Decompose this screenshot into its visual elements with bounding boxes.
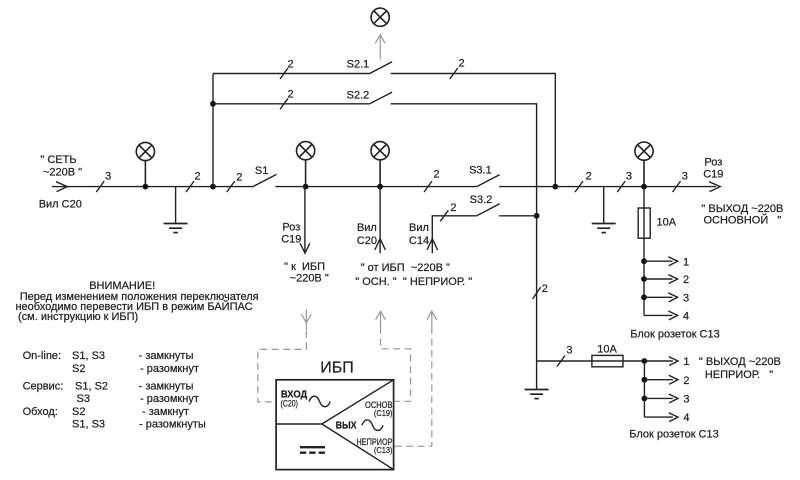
svg-text:2: 2	[458, 57, 464, 69]
svg-text:2: 2	[683, 274, 689, 286]
svg-text:4: 4	[683, 412, 689, 424]
lamp HL4	[635, 142, 653, 187]
svg-text:S1, S3: S1, S3	[72, 350, 105, 362]
svg-text:ОСНОВНОЙ ": ОСНОВНОЙ "	[703, 214, 781, 227]
switch S2.2 blade	[370, 92, 392, 104]
wire S2.1 right + corner down	[391, 74, 556, 187]
svg-text:" ОСН. ": " ОСН. "	[355, 276, 397, 288]
svg-text:" СЕТЬ: " СЕТЬ	[40, 154, 76, 166]
wire out2 vertical	[643, 361, 645, 417]
svg-text:С19: С19	[703, 168, 723, 180]
lamp HL2	[297, 142, 315, 187]
UPS diagonals	[322, 380, 394, 424]
svg-text:ИБП: ИБП	[320, 360, 354, 377]
svg-text:- разомкнут: - разомкнут	[140, 393, 199, 405]
svg-text:Вил С20: Вил С20	[39, 198, 82, 210]
svg-text:- замкнуты: - замкнуты	[139, 350, 194, 362]
svg-text:3: 3	[682, 170, 688, 182]
svg-text:(С13): (С13)	[374, 445, 393, 455]
node junction dot riser-S2.2	[210, 101, 216, 107]
svg-text:2: 2	[194, 170, 200, 182]
svg-text:~220В ": ~220В "	[290, 273, 329, 285]
wire S2.2 right + corner down to bus	[391, 104, 537, 361]
node dot out2	[641, 276, 647, 282]
wire S1 to lamp junctions	[275, 186, 476, 188]
wire out row 3	[644, 293, 678, 302]
svg-text:(см. инструкцию к ИБП): (см. инструкцию к ИБП)	[18, 311, 138, 323]
wire slash 3 out	[673, 181, 681, 192]
wire Роз C19 drop	[304, 187, 306, 253]
svg-text:S2: S2	[72, 406, 85, 418]
svg-text:3: 3	[683, 292, 689, 304]
svg-text:3: 3	[566, 344, 572, 356]
svg-text:3: 3	[626, 170, 632, 182]
node dot out2-3	[642, 396, 648, 402]
node gray arrow up НЕПРИОР	[427, 311, 437, 327]
node dot out3	[641, 294, 647, 300]
svg-text:- замкнут: - замкнут	[142, 406, 189, 418]
switch S1	[253, 174, 277, 186]
svg-text:2: 2	[288, 58, 294, 70]
switch S3.1	[477, 175, 500, 187]
wire riser to S2	[212, 74, 214, 187]
node junction dot lamp3	[377, 184, 383, 190]
wire dashed ОСН path	[381, 327, 411, 401]
svg-text:S3: S3	[77, 393, 90, 405]
wire out2 row 1	[644, 357, 678, 366]
node battery symbol	[300, 446, 325, 448]
svg-text:S2: S2	[72, 363, 85, 375]
svg-text:С20: С20	[357, 235, 377, 247]
node dot out1	[641, 258, 647, 264]
svg-text:(С19): (С19)	[374, 408, 393, 418]
svg-text:~220В ": ~220В "	[43, 166, 82, 178]
svg-text:Вил: Вил	[357, 222, 377, 234]
wire slash 2 on S2.2 drop	[533, 287, 541, 299]
svg-text:3: 3	[683, 394, 689, 406]
svg-text:" ВЫХОД ~220В: " ВЫХОД ~220В	[699, 356, 781, 368]
node gray arrow up to lamp	[375, 35, 385, 60]
svg-text:Роз: Роз	[282, 221, 300, 233]
svg-text:S1: S1	[255, 165, 268, 177]
svg-text:Сервис:: Сервис:	[23, 381, 64, 393]
svg-text:- разомкнуты: - разомкнуты	[139, 418, 206, 430]
fuse FU2 10A	[592, 355, 623, 366]
svg-text:10А: 10А	[597, 343, 617, 355]
svg-text:2: 2	[542, 283, 548, 295]
ground input	[164, 187, 188, 233]
wire slash 2 before S1	[227, 181, 235, 192]
fuse FU1 10A	[638, 208, 650, 238]
wire out row 4	[644, 311, 678, 320]
svg-text:S3.1: S3.1	[469, 165, 492, 177]
wire dashed ВХОД path	[258, 331, 307, 402]
svg-text:2: 2	[450, 202, 456, 214]
wire out row 1	[644, 257, 678, 266]
svg-text:S2.1: S2.1	[347, 58, 370, 70]
svg-text:- замкнуты: - замкнуты	[139, 381, 194, 393]
svg-text:S3.2: S3.2	[470, 194, 493, 206]
switch S2.2 line left	[213, 103, 370, 105]
node junction dot lamp2	[303, 184, 309, 190]
node output arrow chevron	[709, 182, 720, 192]
node sine output	[362, 420, 383, 431]
node junction dot lamp4	[641, 184, 647, 190]
ground output stub	[592, 187, 616, 233]
ground bus	[525, 361, 549, 399]
svg-text:2: 2	[433, 168, 439, 180]
wire slash 2 C14	[440, 210, 448, 221]
node input arrow chevron	[56, 182, 67, 192]
lamp HL3	[371, 142, 389, 187]
node plug chevron up C14	[427, 239, 438, 250]
svg-text:Обход:: Обход:	[23, 406, 58, 418]
svg-text:НЕПРИОР. ": НЕПРИОР. "	[705, 369, 773, 381]
node sine input	[309, 396, 330, 407]
svg-text:S1, S3: S1, S3	[72, 418, 105, 430]
svg-text:ВЫХ: ВЫХ	[336, 420, 357, 431]
wire main input line	[52, 186, 253, 188]
svg-text:Роз: Роз	[704, 156, 722, 168]
wire S3.2 right	[499, 215, 536, 217]
wire S3.1 right	[499, 186, 716, 188]
node gray arrow up ОСН	[376, 311, 386, 327]
node plug chevron up	[375, 239, 386, 250]
svg-text:1: 1	[683, 256, 689, 268]
wire fuse drop	[643, 187, 645, 316]
switch S3.2	[477, 204, 500, 216]
wire slash 2 before S3.1	[424, 181, 432, 192]
svg-text:3: 3	[105, 170, 111, 182]
svg-text:S2.2: S2.2	[347, 89, 370, 101]
node arrow down filled	[300, 243, 310, 253]
node gray arrow down ВХОД	[301, 309, 311, 330]
wire slash 3 bus	[557, 356, 565, 367]
svg-text:2: 2	[683, 375, 689, 387]
node junction dot S3.2-drop	[534, 213, 540, 219]
node junction dot S2.1-main	[552, 184, 558, 190]
wire out2 row 3	[644, 394, 678, 403]
wire out2 row 4	[644, 413, 678, 422]
wire out row 2	[644, 275, 678, 284]
wire slash 2 after S2.1 junction	[575, 181, 583, 192]
svg-text:Блок розеток С13: Блок розеток С13	[630, 329, 720, 341]
svg-text:- разомкнут: - разомкнут	[140, 363, 199, 375]
svg-text:" от ИБП ~220В ": " от ИБП ~220В "	[361, 262, 450, 274]
svg-text:С19: С19	[281, 234, 301, 246]
svg-text:2: 2	[288, 89, 294, 101]
node junction dot	[143, 184, 149, 190]
svg-text:1: 1	[683, 356, 689, 368]
svg-text:" к ИБП: " к ИБП	[284, 261, 325, 273]
node dot bus-out	[642, 358, 648, 364]
wire slash 3 input	[96, 181, 104, 192]
switch S2.1 line left	[213, 73, 370, 75]
wire slash 2	[186, 181, 194, 192]
svg-text:ВНИМАНИЕ!: ВНИМАНИЕ!	[89, 280, 155, 292]
svg-text:4: 4	[683, 311, 689, 323]
wire Вил C14 branch	[432, 216, 476, 254]
wire out2 row 2	[644, 375, 678, 384]
switch S2.1 blade	[370, 62, 392, 74]
svg-text:S1, S2: S1, S2	[75, 381, 108, 393]
svg-text:Вил: Вил	[409, 222, 429, 234]
wire dashed НЕПРИОР path	[395, 327, 432, 446]
svg-text:(С20): (С20)	[281, 399, 299, 409]
svg-text:" НЕПРИОР. ": " НЕПРИОР. "	[403, 276, 472, 288]
node junction dot riser-main	[210, 184, 216, 190]
svg-text:10А: 10А	[657, 216, 677, 228]
wire Вил C20 drop	[379, 187, 381, 254]
node dot out2-2	[642, 377, 648, 383]
wire slash 3	[617, 181, 625, 192]
svg-text:Блок розеток С13: Блок розеток С13	[629, 428, 719, 440]
wire bottom bus	[537, 360, 645, 362]
lamp HL1	[136, 142, 154, 186]
svg-text:" ВЫХОД ~220В: " ВЫХОД ~220В	[701, 203, 783, 215]
svg-text:С14: С14	[409, 235, 429, 247]
svg-text:On-line:: On-line:	[23, 350, 62, 362]
lamp HL0 top	[371, 8, 389, 26]
svg-text:2: 2	[236, 172, 242, 184]
UPS box ИБП	[276, 380, 394, 470]
svg-text:2: 2	[586, 170, 592, 182]
